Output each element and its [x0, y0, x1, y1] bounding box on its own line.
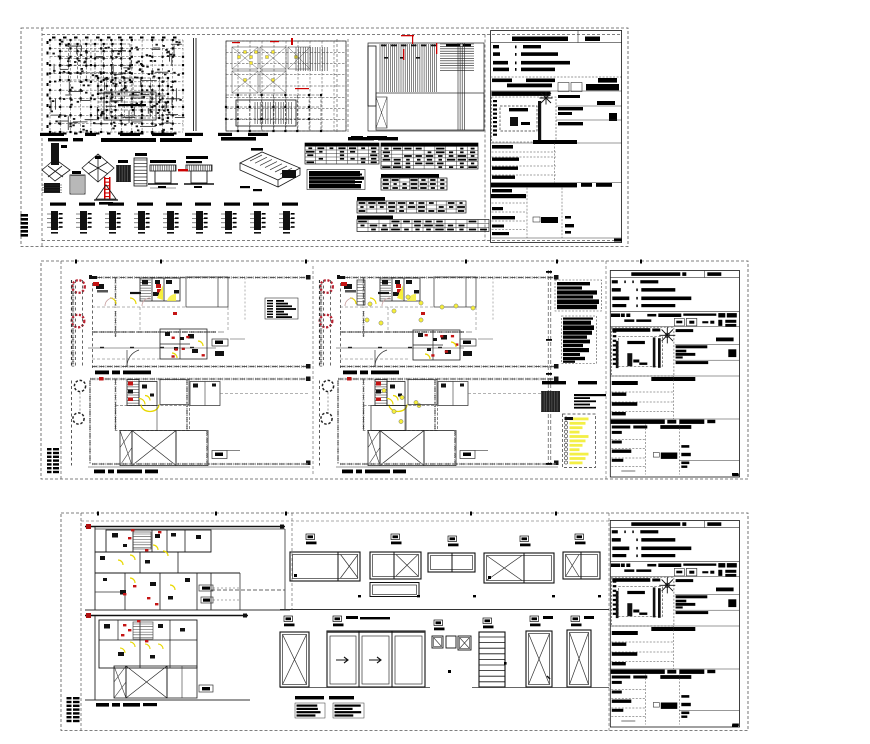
beam schedule table D	[357, 197, 466, 213]
stair/ladder detail	[134, 153, 147, 186]
sheet 3 outer border	[61, 512, 748, 731]
structural framing plan P1	[47, 37, 185, 135]
door elevation D5	[567, 616, 594, 687]
wall hatch detail	[541, 381, 606, 412]
electrical plan P4 second floor b	[320, 377, 559, 474]
footing section detail 1	[148, 160, 178, 188]
sheet 2 title block	[610, 271, 739, 478]
sheet 2 notes box 2	[562, 316, 597, 364]
sheet 2 notes box 1	[555, 280, 602, 311]
electrical legend box yellow	[563, 414, 596, 468]
window elevation V1	[290, 534, 360, 581]
sliding door D1	[327, 616, 425, 687]
sheet 1 title block	[491, 31, 622, 243]
sheet 2 outer border	[41, 260, 748, 480]
sheet 1 outer border	[21, 28, 628, 247]
general notes block	[307, 170, 365, 190]
window elevation V5	[563, 534, 600, 579]
column schedule details row	[47, 203, 298, 234]
elevation separator line	[280, 609, 609, 611]
ceiling framing plan P2	[225, 38, 348, 133]
floor plan B sheet3	[85, 613, 250, 707]
red rebar column detail	[94, 177, 118, 205]
plan separator line	[194, 38, 197, 131]
dimension line legend column	[546, 270, 552, 465]
window elevation V4	[484, 536, 554, 583]
plan title bars	[48, 136, 387, 142]
window sill marks	[358, 595, 601, 597]
electrical plan P3 first floor b	[320, 275, 559, 374]
floor plan A sheet3	[85, 524, 290, 610]
louver door D3	[479, 618, 507, 687]
sheet 1 side label block	[21, 214, 29, 237]
sheet 3 left label block	[67, 697, 80, 722]
small window pair W6	[432, 620, 471, 673]
slab isometric detail	[240, 148, 300, 191]
window elevation V2	[370, 534, 421, 597]
door elevation D4	[526, 616, 553, 687]
roof framing plan P3	[368, 35, 484, 131]
sheet 2 left label block	[47, 448, 59, 473]
footing elevation with hatch	[70, 171, 85, 194]
window elevation V3	[428, 536, 475, 572]
door elevation D0	[280, 616, 309, 687]
electrical plan P1 first floor	[72, 275, 311, 374]
hatched pile cap detail	[116, 160, 131, 182]
sheet 3 notes blocks	[295, 696, 364, 718]
beam schedule table E	[357, 216, 489, 232]
rebar schedule table A	[305, 137, 398, 164]
doors base line	[280, 687, 609, 689]
column schedule table C	[381, 174, 447, 190]
footing section detail 2	[178, 156, 214, 188]
detail label bars row	[40, 133, 268, 136]
electrical plan P2 second floor	[72, 377, 311, 474]
foundation isometric detail 1	[42, 143, 70, 193]
foundation isometric detail 2	[82, 154, 114, 182]
sheet 3 title block	[610, 521, 739, 728]
rebar schedule table B	[381, 143, 478, 169]
